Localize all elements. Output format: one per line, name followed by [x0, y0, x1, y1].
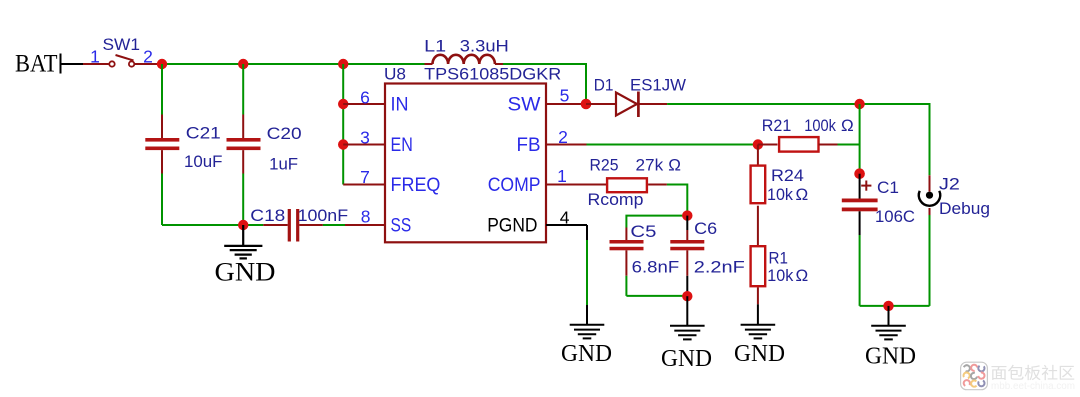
ground GND (C5/C6) [661, 296, 712, 372]
svg-text:GND: GND [215, 258, 276, 287]
junction at C1 column top [854, 99, 864, 109]
svg-text:100k: 100k [804, 116, 836, 135]
pin 7 FREQ [343, 184, 385, 186]
pin 2 FB [546, 144, 587, 146]
wire C1 column vertical [859, 104, 861, 174]
svg-text:GND: GND [661, 346, 712, 372]
svg-text:10k: 10k [767, 185, 793, 204]
ground GND (C1/J2) [865, 306, 916, 370]
svg-text:3: 3 [360, 128, 370, 148]
watermark logo [961, 362, 1075, 392]
svg-text:27k: 27k [636, 156, 664, 175]
svg-text:FB: FB [517, 135, 541, 156]
svg-text:5: 5 [560, 86, 570, 106]
svg-text:J2: J2 [939, 175, 960, 194]
svg-text:mbb.eet-china.com: mbb.eet-china.com [991, 381, 1075, 392]
svg-text:ES1JW: ES1JW [630, 76, 686, 95]
junction at SW1 output [157, 59, 167, 69]
junction at C6 bottom / GND [682, 291, 692, 301]
svg-text:3.3uH: 3.3uH [460, 37, 509, 56]
capacitor C20 [227, 64, 261, 225]
junction at bottom-right GND tap [883, 301, 893, 311]
svg-text:C20: C20 [267, 124, 302, 143]
op-amp U8 TPS61085DGKR body [385, 84, 546, 243]
connector J2 Debug [919, 175, 940, 306]
svg-text:R1: R1 [769, 249, 788, 268]
svg-text:4: 4 [560, 208, 570, 228]
svg-text:COMP: COMP [488, 175, 541, 196]
pin 3 EN [343, 144, 385, 146]
svg-text:C5: C5 [630, 222, 656, 241]
pin 5 SW [546, 103, 586, 105]
wire D1 to top-right corner and down to J2 [667, 104, 929, 175]
svg-text:C6: C6 [694, 219, 717, 238]
inductor L1 [425, 55, 504, 64]
capacitor C21 [145, 64, 179, 225]
svg-text:GND: GND [865, 344, 916, 370]
svg-text:1: 1 [557, 166, 567, 186]
svg-text:D1: D1 [594, 76, 614, 95]
svg-text:C21: C21 [186, 124, 221, 143]
port BAT [15, 51, 83, 78]
pin 8 SS [345, 224, 385, 226]
pin 4 PGND [546, 224, 587, 226]
diode D1 ES1JW [586, 92, 667, 118]
svg-text:SW1: SW1 [103, 35, 141, 54]
svg-text:10uF: 10uF [184, 152, 223, 171]
svg-text:TPS61085DGKR: TPS61085DGKR [424, 65, 561, 84]
capacitor C5 [610, 228, 644, 296]
wire R25 to C5/C6 node [667, 185, 687, 216]
wire top main rail [162, 63, 425, 65]
junction at COMP network top [682, 210, 692, 220]
junction at C1 top [854, 168, 865, 179]
resistor R24 [751, 145, 766, 246]
ground GND (left) [215, 225, 276, 287]
svg-text:SS: SS [391, 215, 412, 236]
svg-text:面包板社区: 面包板社区 [991, 365, 1076, 383]
svg-text:2.2nF: 2.2nF [694, 258, 745, 277]
junction at EN pin [338, 139, 348, 149]
svg-text:BAT: BAT [15, 51, 58, 78]
ground GND (R1) [734, 304, 785, 367]
svg-text:100nF: 100nF [298, 206, 349, 225]
svg-text:SW: SW [508, 94, 541, 115]
svg-text:106C: 106C [875, 207, 915, 226]
svg-text:8: 8 [361, 207, 371, 227]
pin 1 COMP [546, 184, 607, 186]
svg-text:Ω: Ω [796, 266, 809, 285]
wire C18 to SS pin [323, 224, 345, 226]
svg-text:FREQ: FREQ [391, 175, 441, 196]
wire PGND to ground [586, 225, 588, 325]
resistor R1 [751, 246, 766, 304]
svg-text:2: 2 [143, 47, 153, 67]
capacitor C1 (polarized) [842, 174, 878, 306]
svg-text:C18: C18 [250, 206, 285, 225]
svg-text:1: 1 [90, 47, 100, 67]
wire FB net [587, 144, 758, 146]
wire R21 to right rail [838, 144, 860, 146]
pin 6 IN [343, 103, 385, 105]
svg-text:EN: EN [391, 135, 413, 156]
svg-text:GND: GND [561, 341, 612, 367]
svg-text:1uF: 1uF [269, 155, 298, 174]
capacitor C6 [670, 216, 704, 297]
svg-text:R24: R24 [771, 166, 804, 185]
svg-text:R25: R25 [590, 156, 619, 175]
svg-text:GND: GND [734, 341, 785, 367]
capacitor C18 [263, 209, 323, 242]
junction at FB / R21 / R24 [753, 139, 763, 149]
svg-text:L1: L1 [424, 37, 446, 56]
svg-text:IN: IN [391, 94, 409, 115]
svg-text:R21: R21 [762, 116, 792, 135]
junction at IN pin [338, 99, 348, 109]
wire C5 top link [626, 216, 687, 228]
ground GND (PGND) [561, 325, 612, 367]
junction at SW node [581, 99, 592, 110]
svg-text:7: 7 [360, 167, 370, 187]
resistor R21 [758, 137, 838, 152]
wire bottom-right rail [860, 305, 930, 307]
svg-text:Rcomp: Rcomp [588, 190, 644, 209]
svg-text:2: 2 [558, 127, 568, 147]
svg-text:C1: C1 [877, 178, 899, 197]
wire L1 to SW node [503, 64, 586, 104]
svg-text:Ω: Ω [668, 156, 681, 175]
wire C5/C6 bottom link [626, 295, 687, 297]
svg-text:PGND: PGND [487, 215, 537, 236]
wire bottom-left rail [162, 224, 263, 226]
junction at left rail top [338, 59, 348, 69]
svg-text:6: 6 [360, 87, 370, 107]
svg-text:10k: 10k [767, 266, 793, 285]
resistor R25 Rcomp [607, 178, 667, 192]
svg-text:6.8nF: 6.8nF [632, 258, 680, 277]
svg-text:Ω: Ω [841, 116, 854, 135]
switch SW1 [83, 55, 158, 67]
junction at C20 bottom / GND [238, 220, 248, 230]
svg-text:U8: U8 [384, 65, 406, 84]
junction at C20 top [238, 59, 248, 69]
svg-text:Debug: Debug [939, 199, 990, 218]
svg-text:Ω: Ω [796, 185, 809, 204]
wire left rail vertical [342, 64, 344, 185]
